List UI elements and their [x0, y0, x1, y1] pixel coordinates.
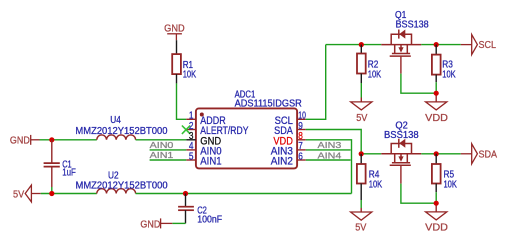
- wire SCL to port: [461, 44, 472, 46]
- svg-text:1uF: 1uF: [62, 168, 76, 179]
- wire Q1 gate to VDD node: [400, 57, 402, 74]
- svg-text:AIN1: AIN1: [200, 156, 221, 168]
- wire SDA to port: [461, 153, 472, 155]
- svg-text:AIN2: AIN2: [271, 156, 293, 168]
- pin 8 VDD: [297, 139, 306, 141]
- pin 10 SCL: [297, 118, 306, 120]
- node 5V/C1 junction: [49, 191, 54, 196]
- capacitor C2: [185, 194, 187, 207]
- pin 6 AIN2: [297, 159, 306, 161]
- svg-text:SDA: SDA: [479, 148, 498, 160]
- svg-text:GND: GND: [140, 219, 160, 231]
- ground arrow 5V (under R2): [351, 102, 372, 110]
- svg-text:5V: 5V: [13, 189, 24, 201]
- svg-text:SCL: SCL: [479, 39, 497, 51]
- pin 9 SDA: [297, 129, 306, 131]
- ground arrow 5V (under R4): [351, 212, 372, 220]
- resistor R1: [176, 40, 178, 54]
- ground arrow VDD (under R3): [426, 102, 447, 110]
- wire AIN3 (pin 7): [306, 149, 351, 151]
- wire AIN1 (pin 5): [150, 159, 187, 161]
- svg-text:10K: 10K: [369, 179, 383, 190]
- pin 5 AIN1: [186, 159, 195, 161]
- pin 1 ADDR: [186, 118, 195, 120]
- svg-text:100nF: 100nF: [197, 215, 222, 226]
- IC ADC1 ADS1115IDGSR body: [196, 108, 297, 168]
- svg-text:MMZ2012Y152BT000: MMZ2012Y152BT000: [76, 181, 169, 192]
- node R3 bottom junction (gate tie): [434, 91, 439, 96]
- svg-text:GND: GND: [10, 135, 30, 147]
- wire GND row (flag to U4): [40, 139, 97, 141]
- pin 4 AIN0: [186, 149, 195, 151]
- wire SDA rail left of Q2: [361, 153, 381, 155]
- port SDA: [472, 144, 478, 164]
- svg-text:5: 5: [189, 151, 194, 162]
- node R5 top junction: [434, 151, 439, 156]
- ground arrow VDD (under R5): [426, 212, 447, 220]
- svg-text:BSS138: BSS138: [384, 130, 419, 141]
- pin 2 ALERT/RDY: [186, 129, 195, 131]
- svg-text:5V: 5V: [356, 112, 367, 124]
- wire AIN0 (pin 4): [150, 149, 187, 151]
- wire VDD row (U2 to pin8 riser): [136, 193, 352, 195]
- wire VDD riser (pin 8 right, down to VDD row): [306, 140, 352, 194]
- wire SCL rail left of Q1: [326, 44, 382, 46]
- svg-text:VDD: VDD: [425, 222, 448, 234]
- wire SDA riser (pin 9 to rail): [306, 130, 361, 154]
- transistor Q2 BSS138: [381, 139, 421, 166]
- wire Q2 gate to VDD node: [400, 166, 402, 184]
- wire R1 to pin 1: [177, 83, 187, 119]
- wire AIN4 (pin 6): [306, 159, 351, 161]
- svg-text:AIN3: AIN3: [318, 140, 342, 150]
- node R3 top junction: [434, 42, 439, 47]
- supply flag 5V (left): [25, 185, 31, 202]
- svg-text:U4: U4: [110, 115, 121, 126]
- svg-text:5V: 5V: [355, 221, 366, 233]
- port SCL: [472, 35, 478, 55]
- resistor R2: [360, 45, 362, 54]
- resistor R3: [435, 45, 437, 55]
- svg-text:10K: 10K: [183, 70, 197, 81]
- supply flag GND (top, above R1): [167, 34, 182, 40]
- svg-text:VDD: VDD: [425, 112, 448, 124]
- svg-text:AIN4: AIN4: [318, 150, 342, 160]
- svg-text:ADS1115IDGSR: ADS1115IDGSR: [235, 99, 302, 110]
- svg-text:6: 6: [298, 151, 303, 162]
- wire U4 to pin 3: [136, 139, 187, 141]
- wire SDA rail right of Q2: [421, 153, 461, 155]
- wire SCL riser (pin 10 up to rail): [306, 45, 326, 120]
- svg-text:GND: GND: [164, 23, 185, 35]
- svg-text:AIN0: AIN0: [150, 140, 174, 150]
- supply flag GND (left): [31, 135, 40, 145]
- node R2 top junction: [359, 42, 364, 47]
- svg-text:MMZ2012Y152BT000: MMZ2012Y152BT000: [75, 126, 168, 137]
- node R4 top junction: [359, 151, 364, 156]
- pin 3 GND: [186, 139, 195, 141]
- polarity dot inside IC: [200, 113, 204, 117]
- node R5 bottom junction (gate tie): [434, 201, 439, 206]
- svg-text:10K: 10K: [442, 69, 456, 80]
- ferrite bead U2: [97, 189, 136, 194]
- node GND/C1 junction: [49, 137, 54, 142]
- resistor R4: [360, 154, 362, 164]
- svg-text:AIN1: AIN1: [150, 150, 174, 160]
- resistor R5: [435, 154, 437, 164]
- svg-text:10K: 10K: [444, 179, 458, 190]
- svg-text:BSS138: BSS138: [396, 19, 430, 30]
- wire C2 to GND flag: [172, 222, 185, 224]
- supply flag GND (bottom, at C2): [161, 218, 173, 228]
- svg-text:10K: 10K: [368, 69, 382, 80]
- transistor Q1 BSS138: [381, 30, 421, 57]
- ferrite bead U4: [97, 135, 136, 140]
- wire SCL rail right of Q1: [421, 44, 461, 46]
- wire 5V flag to U2: [41, 193, 97, 195]
- node VDD/C2 junction: [183, 191, 188, 196]
- pin 7 AIN3: [297, 149, 306, 151]
- capacitor C1: [51, 140, 53, 163]
- no-connect X on pin 2: [182, 126, 190, 134]
